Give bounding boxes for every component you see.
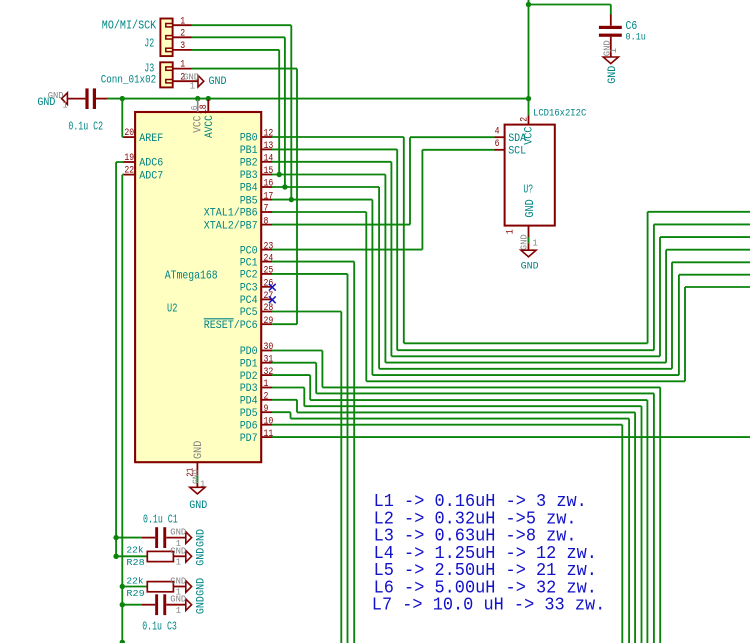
svg-text:19: 19 xyxy=(124,152,134,163)
wire VCC rail xyxy=(107,98,529,100)
svg-text:20: 20 xyxy=(124,127,134,138)
svg-text:GND: GND xyxy=(196,529,208,547)
svg-text:17: 17 xyxy=(264,190,274,201)
J2 pin 1 stub xyxy=(173,24,192,26)
svg-text:GND: GND xyxy=(521,261,539,272)
wire to C3 xyxy=(122,604,142,606)
capacitor C6 xyxy=(599,26,622,29)
J3 pin 2 stub to GND xyxy=(173,80,198,82)
svg-text:GND: GND xyxy=(170,545,186,556)
svg-text:1: 1 xyxy=(180,59,185,70)
svg-text:GND: GND xyxy=(196,548,208,566)
pin 1 PD3 xyxy=(261,387,272,389)
pin 9 PD5 xyxy=(261,411,272,413)
resistor R28 xyxy=(147,551,173,561)
pin 17 PB5 xyxy=(261,199,272,201)
svg-text:U2: U2 xyxy=(167,301,177,315)
wire PD1 xyxy=(272,363,654,643)
C2 left pin to ground xyxy=(67,98,85,100)
wire AREF drop xyxy=(122,99,124,138)
svg-text:12: 12 xyxy=(264,128,274,139)
svg-text:U?: U? xyxy=(523,182,533,196)
svg-text:J3: J3 xyxy=(144,62,154,76)
svg-text:PB2: PB2 xyxy=(240,158,258,170)
pin 32 PD2 xyxy=(261,374,272,376)
wire to R28 xyxy=(116,555,148,557)
pin 24 PC1 xyxy=(261,261,272,263)
svg-text:1: 1 xyxy=(180,15,185,26)
svg-text:32: 32 xyxy=(264,366,274,377)
svg-text:10: 10 xyxy=(264,415,274,426)
wire J2 pin3 to PB3 xyxy=(192,50,280,175)
wire PD3 xyxy=(272,388,642,643)
svg-text:GND: GND xyxy=(196,596,208,614)
ground symbol at C1 xyxy=(186,532,192,544)
svg-text:22k: 22k xyxy=(126,545,144,556)
junction top wire xyxy=(526,2,531,7)
pin 22 ADC7 xyxy=(123,174,135,176)
capacitor C2 xyxy=(85,88,88,109)
svg-text:RESET/PC6: RESET/PC6 xyxy=(204,320,258,332)
connector J2 xyxy=(160,19,172,57)
junction PB3 xyxy=(277,172,282,177)
svg-text:16: 16 xyxy=(264,178,274,189)
svg-text:GND: GND xyxy=(193,441,205,459)
wire PB2 loop xyxy=(272,162,750,356)
junction AVCC pin xyxy=(206,96,211,101)
pin 14 PB2 xyxy=(261,161,272,163)
svg-text:PD4: PD4 xyxy=(240,396,258,408)
junction VCC rail / AREF drop xyxy=(120,96,125,101)
svg-text:25: 25 xyxy=(264,265,274,276)
junction C3 xyxy=(120,602,125,607)
svg-text:22k: 22k xyxy=(126,576,144,587)
svg-text:7: 7 xyxy=(264,203,269,214)
junction VCC pin xyxy=(195,96,200,101)
svg-text:XTAL1/PB6: XTAL1/PB6 xyxy=(204,208,258,220)
svg-text:1: 1 xyxy=(190,81,196,92)
svg-text:GND: GND xyxy=(518,234,529,250)
svg-text:GND: GND xyxy=(170,594,186,605)
wire J2 pin1 to PB5 xyxy=(192,25,292,199)
junction PB4 xyxy=(282,184,287,189)
C3 right pin xyxy=(166,604,186,606)
svg-text:XTAL2/PB7: XTAL2/PB7 xyxy=(204,220,258,232)
svg-text:2: 2 xyxy=(264,391,269,402)
svg-text:GND: GND xyxy=(170,527,186,538)
svg-text:GND: GND xyxy=(196,578,208,596)
svg-text:PB0: PB0 xyxy=(240,133,258,145)
C1 left pin xyxy=(142,537,155,539)
svg-text:1: 1 xyxy=(176,557,182,568)
svg-text:L7 -> 10.0 uH -> 33 zw.: L7 -> 10.0 uH -> 33 zw. xyxy=(372,596,606,616)
wire XTAL2 to SDA xyxy=(272,137,495,224)
wire PD5 xyxy=(272,412,629,643)
junction bottom edge xyxy=(120,640,125,643)
wire J2 pin2 to PB4 xyxy=(192,37,285,187)
wire ADC7 down xyxy=(122,175,124,643)
svg-text:GND: GND xyxy=(37,97,55,109)
svg-text:14: 14 xyxy=(264,153,274,164)
pin 28 PC5 xyxy=(261,311,272,313)
LCD16x2I2C U? body xyxy=(505,125,555,226)
ATmega168 U2 body xyxy=(135,112,261,462)
junction R28 xyxy=(113,554,118,559)
svg-text:0.1u C2: 0.1u C2 xyxy=(68,121,103,134)
no-connect X at PC4 xyxy=(269,296,276,303)
svg-text:0.1u C1: 0.1u C1 xyxy=(143,514,178,527)
pin 19 ADC6 xyxy=(123,161,135,163)
svg-text:PD1: PD1 xyxy=(240,358,258,370)
svg-text:6: 6 xyxy=(495,138,500,149)
svg-text:ADC7: ADC7 xyxy=(139,170,163,182)
wire PC1 down xyxy=(272,262,354,643)
svg-text:GND: GND xyxy=(170,576,186,587)
svg-text:1: 1 xyxy=(264,378,269,389)
svg-text:SDA: SDA xyxy=(508,133,526,145)
pin 26 PC3 xyxy=(261,286,272,288)
C1 right pin xyxy=(166,537,186,539)
svg-text:28: 28 xyxy=(264,302,274,313)
wire vertical to LCD VCC xyxy=(528,0,530,116)
J2 pin 2 stub xyxy=(173,36,192,38)
ground symbol below IC xyxy=(190,487,205,494)
wire PC2 down xyxy=(272,274,348,643)
svg-text:GND: GND xyxy=(189,500,207,512)
pin 30 PD0 xyxy=(261,350,272,352)
junction VCC rail right end xyxy=(526,96,531,101)
svg-text:18: 18 xyxy=(198,104,209,114)
svg-text:1: 1 xyxy=(532,237,538,248)
pin 16 PB4 xyxy=(261,186,272,188)
svg-text:0.1u C3: 0.1u C3 xyxy=(142,620,177,633)
svg-text:13: 13 xyxy=(264,140,274,151)
ground symbol at R28 xyxy=(186,551,192,563)
svg-text:4: 4 xyxy=(495,126,500,137)
wire PC0 to SCL xyxy=(272,150,495,250)
wire to C1 xyxy=(116,537,142,539)
R29 right pin xyxy=(173,586,185,588)
svg-text:0.1u: 0.1u xyxy=(626,31,646,42)
resistor R29 xyxy=(147,582,173,592)
svg-text:3: 3 xyxy=(180,40,185,51)
capacitor C3 xyxy=(155,594,158,615)
wire PB0 loop xyxy=(272,137,750,343)
svg-text:PC2: PC2 xyxy=(240,270,258,282)
wire XTAL1 loop xyxy=(272,212,750,381)
wire PC5 down xyxy=(272,312,341,643)
C3 left pin xyxy=(142,604,155,606)
svg-text:PC4: PC4 xyxy=(240,295,258,307)
svg-text:R28: R28 xyxy=(126,557,144,568)
svg-text:R29: R29 xyxy=(126,588,144,599)
ground symbol at C3 xyxy=(186,599,192,611)
svg-text:PD6: PD6 xyxy=(240,420,258,432)
junction R29 xyxy=(120,584,125,589)
pin 15 PB3 xyxy=(261,174,272,176)
J3 pin 1 stub xyxy=(173,68,192,70)
svg-text:PB1: PB1 xyxy=(240,145,258,157)
AVCC pin 18 xyxy=(207,100,209,113)
svg-text:1: 1 xyxy=(608,48,619,54)
no-connect X at PC3 xyxy=(269,284,276,291)
pin 2 PD4 xyxy=(261,399,272,401)
capacitor C1 xyxy=(155,527,158,548)
svg-text:PD0: PD0 xyxy=(240,346,258,358)
svg-text:PD3: PD3 xyxy=(240,383,258,395)
junction PB5 xyxy=(289,197,294,202)
ground symbol at C2 xyxy=(62,93,68,105)
svg-text:1: 1 xyxy=(176,605,182,616)
pin 7 XTAL1/PB6 xyxy=(261,211,272,213)
svg-text:GND: GND xyxy=(523,199,537,217)
svg-text:11: 11 xyxy=(264,428,274,439)
pin 25 PC2 xyxy=(261,273,272,275)
svg-text:PB5: PB5 xyxy=(240,195,258,207)
svg-text:1: 1 xyxy=(63,100,69,111)
C2 right pin xyxy=(96,98,109,100)
svg-text:VCC: VCC xyxy=(192,116,204,133)
svg-text:24: 24 xyxy=(264,252,274,263)
svg-text:PC1: PC1 xyxy=(240,257,258,269)
pin 31 PD1 xyxy=(261,362,272,364)
wire PD6 xyxy=(272,425,622,643)
svg-text:J2: J2 xyxy=(144,36,154,50)
wire PB1 loop xyxy=(272,149,750,350)
pin 13 PB1 xyxy=(261,148,272,150)
svg-text:2: 2 xyxy=(180,27,185,38)
R28 right pin xyxy=(173,555,185,557)
svg-text:2: 2 xyxy=(518,117,529,122)
svg-text:PC3: PC3 xyxy=(240,283,258,295)
svg-text:AREF: AREF xyxy=(139,133,163,145)
J2 pin 3 stub xyxy=(173,49,192,51)
pin 23 PC0 xyxy=(261,249,272,251)
ground symbol below LCD xyxy=(521,250,536,257)
svg-text:MO/MI/SCK: MO/MI/SCK xyxy=(102,19,157,33)
svg-text:AVCC: AVCC xyxy=(204,115,216,138)
LCD pin 1 stub (GND bottom) xyxy=(528,226,530,237)
svg-text:SCL: SCL xyxy=(508,146,526,158)
wire PB3 loop xyxy=(272,175,750,363)
C6 top pin xyxy=(610,15,612,26)
svg-text:PB4: PB4 xyxy=(240,183,258,195)
wire to R29 xyxy=(122,586,148,588)
svg-text:ADC6: ADC6 xyxy=(139,158,163,170)
svg-text:1: 1 xyxy=(505,229,516,234)
svg-text:GND: GND xyxy=(209,76,227,88)
svg-text:31: 31 xyxy=(264,353,274,364)
wire to C6 xyxy=(529,5,611,16)
svg-text:ATmega168: ATmega168 xyxy=(165,268,218,282)
wire ADC6 down xyxy=(116,162,124,556)
wire PD4 xyxy=(272,400,635,643)
svg-text:8: 8 xyxy=(264,215,269,226)
svg-text:PD7: PD7 xyxy=(240,433,258,445)
wire PB5 loop xyxy=(272,200,750,376)
svg-text:PD5: PD5 xyxy=(240,408,258,420)
svg-text:9: 9 xyxy=(264,403,269,414)
svg-text:PC5: PC5 xyxy=(240,307,258,319)
pin 27 PC4 xyxy=(261,298,272,300)
LCD pin 4 stub SDA xyxy=(495,136,505,138)
ground symbol at C6 xyxy=(603,57,618,64)
pin 20 AREF xyxy=(123,136,135,138)
svg-text:30: 30 xyxy=(264,341,274,352)
pin 11 PD7 xyxy=(261,436,272,438)
wire PD0 xyxy=(272,351,660,643)
connector J3 xyxy=(160,62,173,87)
pin 29 RESET/PC6 xyxy=(261,323,272,325)
overline on RESET xyxy=(204,318,234,320)
C6 bottom pin xyxy=(610,37,612,57)
svg-text:23: 23 xyxy=(264,240,274,251)
svg-text:PD2: PD2 xyxy=(240,371,258,383)
ground symbol at R29 xyxy=(186,581,192,593)
VCC pin 6 (hidden, gray) xyxy=(197,100,199,113)
ground symbol at J3 pin 2 xyxy=(198,75,204,87)
svg-text:Conn_01x02: Conn_01x02 xyxy=(101,74,157,86)
LCD pin 2 stub (VCC top) xyxy=(528,116,530,125)
wire PD7 xyxy=(272,436,750,438)
svg-text:22: 22 xyxy=(124,165,134,176)
svg-text:15: 15 xyxy=(264,165,274,176)
junction C1 xyxy=(113,535,118,540)
svg-text:PB3: PB3 xyxy=(240,170,258,182)
wire PB4 loop xyxy=(272,187,750,369)
svg-text:GND: GND xyxy=(607,66,619,84)
LCD pin 6 stub SCL xyxy=(495,149,505,151)
pin 8 XTAL2/PB7 xyxy=(261,224,272,226)
svg-text:29: 29 xyxy=(264,315,274,326)
wire J3 pin1 to RESET xyxy=(192,69,298,325)
pin 12 PB0 xyxy=(261,136,272,138)
svg-text:LCD16x2I2C: LCD16x2I2C xyxy=(533,107,586,118)
svg-text:PC0: PC0 xyxy=(240,245,258,257)
pin 10 PD6 xyxy=(261,424,272,426)
wire PD2 xyxy=(272,375,647,643)
